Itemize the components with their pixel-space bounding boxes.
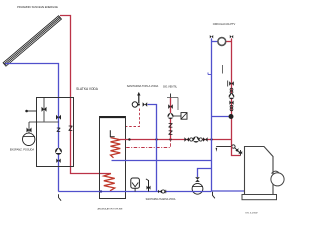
flange circles 2 <box>230 105 233 108</box>
check valves on column <box>169 124 173 135</box>
tick on riser <box>208 74 212 76</box>
check valve on solar hot pipe <box>69 126 73 131</box>
riser pump <box>229 94 235 100</box>
valve on solar return (blue riser) <box>56 115 61 120</box>
boiler body <box>245 147 274 195</box>
solar circulation pump <box>55 148 62 155</box>
three way valve pump <box>168 113 174 119</box>
svg-text:CIRKULACIJA PTV: CIRKULACIJA PTV <box>213 22 236 26</box>
upper coil inlet elbow <box>110 130 114 137</box>
svg-text:SIG.VENTIL: SIG.VENTIL <box>163 84 178 88</box>
drain under blue elbow <box>59 194 62 200</box>
valve DHW cold <box>143 102 148 107</box>
safety valve stub <box>43 98 45 122</box>
tank return pipe (blue) <box>112 160 212 162</box>
flange circles <box>230 88 233 91</box>
check valve on blue riser <box>57 128 60 132</box>
svg-text:SLATKA VODA: SLATKA VODA <box>76 87 99 91</box>
valve to expansion vessel <box>28 122 30 133</box>
cold water to mixer (blue) <box>148 105 157 192</box>
sensor dash-dot line <box>126 140 170 148</box>
svg-text:SANITARNA TOPLA VODA: SANITARNA TOPLA VODA <box>127 84 159 88</box>
svg-text:PRIJAMNIK SUNCEVE ENERGIJE: PRIJAMNIK SUNCEVE ENERGIJE <box>17 5 58 9</box>
boiler supply red drop <box>232 146 241 156</box>
expansion vessel (solar) <box>23 133 35 145</box>
DHW outlet arrow <box>138 95 140 103</box>
sampling tap on bottom line <box>148 180 150 192</box>
DHW outlet dashed pipe <box>126 109 140 127</box>
hot riser (red) <box>231 38 233 146</box>
boiler base <box>242 195 277 200</box>
valve motor box <box>181 113 187 120</box>
safety group column <box>170 98 172 140</box>
solar collector <box>3 16 61 66</box>
expansion vessel (boiler) <box>192 183 203 194</box>
boiler fill line <box>216 146 232 148</box>
bottom cold water line <box>59 191 212 193</box>
mixing valve circle <box>132 102 137 107</box>
svg-text:AKUMULATOR TOPLINE: AKUMULATOR TOPLINE <box>98 207 123 210</box>
circulation pump <box>218 38 226 46</box>
valve cluster on bottom line <box>158 190 162 194</box>
svg-text:KTL 3,17kW: KTL 3,17kW <box>246 212 259 214</box>
expansion vessel branch (right) <box>198 169 212 178</box>
storage tank <box>100 117 126 199</box>
svg-text:EKSPANZ. POSUDA: EKSPANZ. POSUDA <box>10 148 35 152</box>
circulation line w pump <box>212 41 219 43</box>
valve on charge line <box>184 137 189 142</box>
charge pump <box>190 138 193 141</box>
riser valve with handle <box>229 81 234 86</box>
solar pump station box <box>37 98 74 167</box>
drain under main elbow <box>213 192 215 199</box>
junction <box>128 138 130 140</box>
upper coil (boiler coil) <box>111 138 121 158</box>
cold water main riser (blue) <box>212 38 246 191</box>
lower coil (solar coil) <box>104 174 115 191</box>
svg-text:SANITARNA HLADNA VODA: SANITARNA HLADNA VODA <box>146 198 176 201</box>
thermometer stub in station <box>26 110 36 112</box>
valve on charge line 2 <box>203 137 208 142</box>
safety valve <box>168 104 173 109</box>
valve below pump <box>56 159 60 163</box>
burner <box>271 173 284 186</box>
boiler pump branch (blue) <box>212 116 229 118</box>
boiler supply pipe to tank coil (red) <box>120 139 232 141</box>
riser valve 2 <box>229 101 233 105</box>
solar hot pipe (red) collector to tank coil <box>60 16 111 174</box>
membrane vessel <box>131 178 140 188</box>
expansion branch line <box>29 121 59 123</box>
solar cold pipe (blue) collector return <box>5 64 59 192</box>
vent valve red riser <box>230 35 233 38</box>
vent valve blue riser <box>210 35 213 38</box>
valve V1 <box>42 107 47 112</box>
break tick <box>222 65 224 74</box>
